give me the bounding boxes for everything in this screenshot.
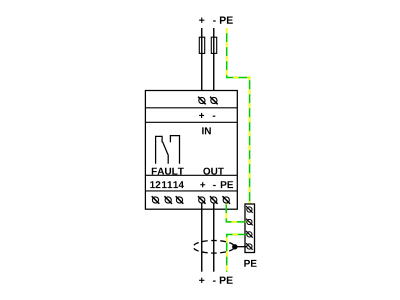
block screw 1	[246, 206, 253, 213]
node L- top label	[213, 20, 216, 21]
label PE out row	[221, 181, 233, 188]
label pin 12	[150, 181, 160, 188]
label - in row	[213, 116, 216, 117]
label + out row	[200, 182, 205, 187]
terminal screw IN+	[198, 97, 206, 105]
wire + supply top	[201, 28, 203, 98]
terminal screw OUT+	[198, 196, 206, 204]
fuse F2	[211, 37, 216, 53]
divider line above bottom-terminal row	[145, 190, 237, 192]
divider line top-terminal row	[145, 107, 237, 109]
terminal screw IN-	[210, 97, 218, 105]
junction dot shield	[232, 244, 237, 249]
wire PE block-to-bottom green	[227, 235, 247, 272]
fuse F1	[199, 37, 204, 53]
terminal screw OUT-	[210, 196, 218, 204]
wire PE box-to-block green	[226, 203, 247, 222]
terminal screw 12	[152, 196, 160, 204]
device box U1	[145, 91, 237, 210]
divider line above 12 11 14 row	[145, 174, 237, 176]
cable shield ellipse	[193, 241, 234, 254]
wire PE top yellow dashes	[227, 28, 250, 206]
terminal screw OUT PE	[222, 196, 230, 204]
block screw 3	[246, 231, 253, 238]
label pin 11	[162, 181, 172, 188]
relay contact K1 pin12 path	[156, 136, 163, 163]
wire PE block-to-bottom yellow dashes	[227, 235, 247, 272]
wire shield-to-block	[235, 246, 247, 248]
node PE bottom label	[220, 277, 233, 284]
label OUT	[203, 168, 224, 175]
node + bottom label	[199, 278, 204, 283]
wire PE top green	[227, 28, 250, 206]
terminal screw 14	[176, 196, 184, 204]
node - bottom label	[213, 281, 216, 282]
label + in row	[199, 113, 204, 118]
relay contact K1 pin11 moving blade	[163, 142, 169, 164]
terminal screw 11	[164, 196, 172, 204]
wire - output bottom	[213, 203, 215, 272]
wire - supply top	[213, 28, 215, 98]
block screw 2	[246, 219, 253, 226]
node PE top label	[220, 17, 233, 24]
terminal block X1	[245, 204, 255, 253]
label pin 14	[174, 181, 184, 188]
label IN	[202, 127, 211, 134]
label - out row	[213, 185, 216, 186]
wire + output bottom	[201, 203, 203, 272]
divider line +- row	[145, 121, 237, 123]
node L+ top label	[199, 18, 204, 23]
label PE at block	[244, 260, 256, 267]
relay contact K1 pin14 path	[170, 136, 179, 164]
wire PE box-to-block yellow dashes	[226, 203, 247, 222]
block screw 4	[246, 243, 253, 250]
label FAULT	[152, 168, 184, 175]
